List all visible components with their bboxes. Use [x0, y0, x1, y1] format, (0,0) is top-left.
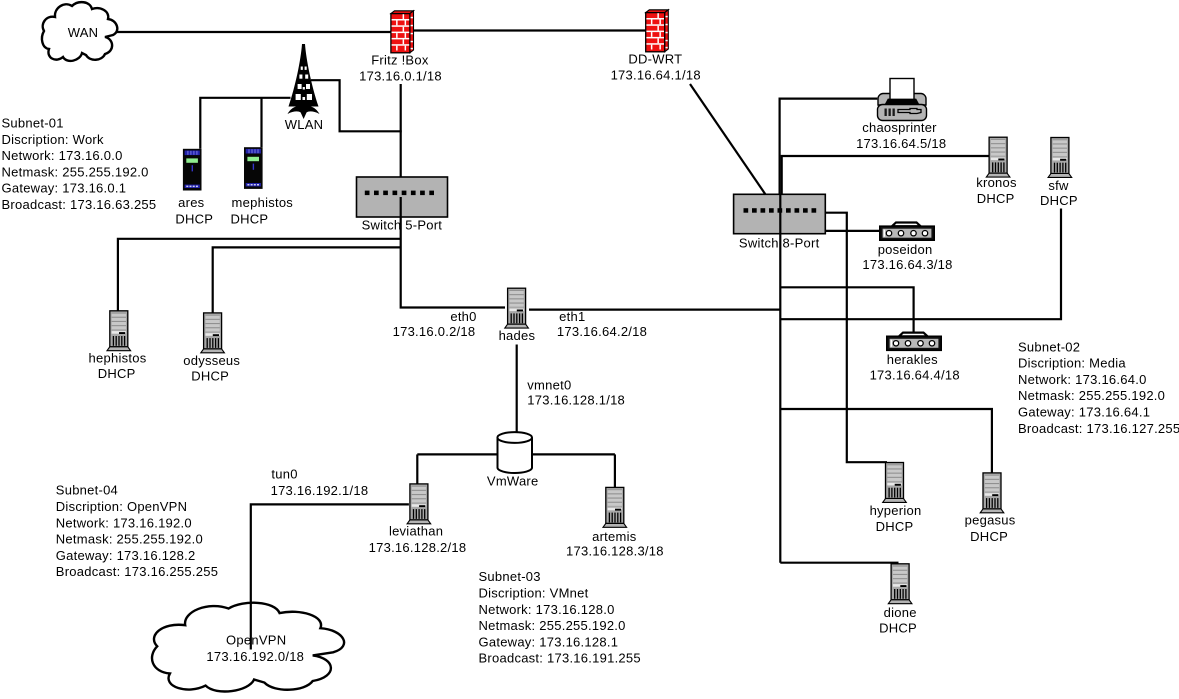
svg-text:DHCP: DHCP — [876, 519, 914, 534]
server hades — [505, 288, 529, 328]
wire kronos to Switch 8-Port — [782, 156, 990, 194]
svg-text:Broadcast: 173.16.63.255: Broadcast: 173.16.63.255 — [2, 197, 157, 212]
text block Subnet-01 — [2, 116, 157, 213]
wire Fritz!Box to DD-WRT — [410, 29, 646, 31]
wire Switch 5-Port bus down to eth0 of hades — [401, 197, 505, 308]
svg-text:OpenVPN: OpenVPN — [226, 632, 286, 647]
svg-text:Netmask: 255.255.192.0: Netmask: 255.255.192.0 — [2, 164, 149, 179]
modem poseidon — [880, 223, 934, 241]
svg-text:Subnet-03: Subnet-03 — [479, 569, 541, 584]
text block Subnet-03 — [479, 569, 641, 666]
svg-text:tun0: tun0 — [271, 467, 297, 482]
svg-text:DHCP: DHCP — [879, 621, 917, 636]
svg-text:Netmask: 255.255.192.0: Netmask: 255.255.192.0 — [479, 618, 626, 633]
svg-text:Broadcast: 173.16.127.255: Broadcast: 173.16.127.255 — [1018, 421, 1179, 436]
wire DD-WRT diagonal to Switch 8-Port — [690, 84, 766, 195]
tower pc mephistos — [244, 147, 263, 189]
svg-text:hyperion: hyperion — [870, 503, 922, 518]
svg-text:DHCP: DHCP — [970, 529, 1008, 544]
firewall DD-WRT — [646, 10, 669, 52]
wire sfw down-left to bus — [780, 209, 1061, 320]
modem herakles — [887, 333, 941, 351]
switch Switch 5-Port box — [357, 177, 448, 217]
svg-text:odysseus: odysseus — [183, 353, 240, 368]
svg-text:DD-WRT: DD-WRT — [628, 51, 682, 66]
svg-text:DHCP: DHCP — [977, 191, 1015, 206]
svg-text:173.16.0.1/18: 173.16.0.1/18 — [359, 69, 442, 84]
svg-text:Network: 173.16.0.0: Network: 173.16.0.0 — [2, 148, 123, 163]
svg-text:DHCP: DHCP — [1040, 193, 1078, 208]
svg-text:leviathan: leviathan — [389, 524, 443, 539]
svg-text:sfw: sfw — [1048, 178, 1069, 193]
server pegasus — [980, 473, 1004, 513]
svg-text:Discription: Media: Discription: Media — [1018, 356, 1126, 371]
svg-text:Discription: OpenVPN: Discription: OpenVPN — [56, 499, 187, 514]
svg-text:hephistos: hephistos — [89, 351, 147, 366]
svg-text:hades: hades — [499, 328, 536, 343]
svg-text:Discription: VMnet: Discription: VMnet — [479, 586, 589, 601]
svg-text:Switch 8-Port: Switch 8-Port — [739, 235, 820, 250]
wire Switch 8-Port right to hyperion — [825, 213, 887, 463]
svg-text:Gateway: 173.16.128.2: Gateway: 173.16.128.2 — [56, 548, 196, 563]
server artemis — [603, 487, 627, 527]
svg-text:Discription: Work: Discription: Work — [2, 132, 105, 147]
wire branch to herakles — [780, 287, 913, 332]
svg-text:DHCP: DHCP — [175, 212, 213, 227]
wire branch to pegasus — [780, 409, 992, 473]
printer chaosprinter — [878, 79, 927, 121]
text block Subnet-02 — [1018, 339, 1179, 436]
wire hades eth1 to Switch 8-Port bus — [529, 309, 780, 311]
svg-text:mephistos: mephistos — [232, 195, 294, 210]
svg-text:artemis: artemis — [592, 529, 637, 544]
svg-text:Gateway: 173.16.64.1: Gateway: 173.16.64.1 — [1018, 405, 1150, 420]
svg-text:173.16.64.4/18: 173.16.64.4/18 — [870, 368, 960, 383]
svg-text:eth1: eth1 — [559, 309, 585, 324]
svg-text:Switch 5-Port: Switch 5-Port — [362, 218, 443, 233]
wire branch to dione — [780, 562, 898, 564]
wire Switch 8-Port main vertical bus — [779, 195, 781, 563]
wire WLAN left bus to ares — [200, 98, 290, 149]
svg-text:173.16.128.1/18: 173.16.128.1/18 — [527, 392, 625, 407]
server leviathan — [407, 484, 431, 524]
wire WAN to Fritz!Box — [116, 31, 391, 33]
wire mephistos drop — [260, 98, 262, 147]
cloud OpenVPN — [152, 603, 344, 692]
svg-text:Fritz !Box: Fritz !Box — [371, 53, 429, 68]
svg-text:DHCP: DHCP — [230, 212, 268, 227]
server odysseus — [201, 313, 225, 353]
svg-text:pegasus: pegasus — [965, 513, 1016, 528]
svg-text:Network: 173.16.64.0: Network: 173.16.64.0 — [1018, 372, 1147, 387]
wire tun0 from leviathan to OpenVPN cloud — [251, 504, 409, 649]
svg-text:DHCP: DHCP — [98, 366, 136, 381]
firewall Fritz !Box — [391, 11, 414, 53]
svg-text:173.16.128.3/18: 173.16.128.3/18 — [566, 544, 664, 559]
svg-text:poseidon: poseidon — [878, 242, 933, 257]
svg-text:herakles: herakles — [887, 352, 938, 367]
cloud WAN — [42, 2, 117, 61]
wire drop to leviathan — [416, 454, 418, 483]
server kronos — [986, 137, 1010, 177]
cylinder VmWare — [497, 432, 532, 473]
wire WLAN zigzag to Fritz!Box riser — [311, 80, 402, 131]
wire Switch 8-Port to poseidon — [825, 230, 879, 232]
wire chaosprinter to Switch 8-Port — [780, 99, 878, 195]
server hephistos — [107, 311, 131, 351]
wire branch to hephistos — [118, 239, 401, 311]
svg-text:VmWare: VmWare — [487, 473, 539, 488]
svg-text:173.16.192.1/18: 173.16.192.1/18 — [271, 483, 369, 498]
server sfw — [1048, 138, 1072, 178]
server hyperion — [883, 463, 907, 503]
wire Fritz!Box down to Switch 5-Port — [400, 84, 402, 177]
svg-text:DHCP: DHCP — [191, 369, 229, 384]
wire drop to artemis — [614, 454, 616, 487]
svg-text:dione: dione — [884, 605, 917, 620]
svg-text:Subnet-02: Subnet-02 — [1018, 339, 1080, 354]
wire branch to odysseus — [213, 247, 401, 312]
wire VmWare horizontal bus — [417, 453, 615, 455]
svg-text:Gateway: 173.16.0.1: Gateway: 173.16.0.1 — [2, 181, 127, 196]
svg-text:Broadcast: 173.16.255.255: Broadcast: 173.16.255.255 — [56, 564, 218, 579]
switch Switch 8-Port box — [734, 194, 826, 233]
svg-text:173.16.0.2/18: 173.16.0.2/18 — [393, 324, 476, 339]
svg-text:Network: 173.16.128.0: Network: 173.16.128.0 — [479, 602, 615, 617]
svg-text:Netmask: 255.255.192.0: Netmask: 255.255.192.0 — [56, 532, 203, 547]
svg-text:kronos: kronos — [976, 175, 1017, 190]
antenna tower WLAN — [288, 44, 320, 119]
svg-text:173.16.192.0/18: 173.16.192.0/18 — [206, 649, 304, 664]
svg-text:ares: ares — [178, 195, 205, 210]
wire hades vmnet0 down to VmWare — [516, 345, 518, 434]
svg-text:chaosprinter: chaosprinter — [862, 120, 937, 135]
svg-text:WLAN: WLAN — [285, 117, 324, 132]
svg-text:Gateway: 173.16.128.1: Gateway: 173.16.128.1 — [479, 634, 619, 649]
server dione — [888, 564, 912, 604]
svg-text:Network: 173.16.192.0: Network: 173.16.192.0 — [56, 515, 192, 530]
svg-text:eth0: eth0 — [450, 309, 476, 324]
tower pc ares — [183, 149, 202, 191]
svg-text:WAN: WAN — [68, 25, 99, 40]
svg-text:Subnet-04: Subnet-04 — [56, 483, 118, 498]
svg-text:vmnet0: vmnet0 — [527, 378, 571, 393]
svg-text:Netmask: 255.255.192.0: Netmask: 255.255.192.0 — [1018, 388, 1165, 403]
svg-text:173.16.128.2/18: 173.16.128.2/18 — [369, 540, 467, 555]
svg-text:Broadcast: 173.16.191.255: Broadcast: 173.16.191.255 — [479, 651, 641, 666]
text block Subnet-04 — [56, 483, 218, 580]
svg-text:173.16.64.2/18: 173.16.64.2/18 — [557, 324, 647, 339]
svg-text:173.16.64.3/18: 173.16.64.3/18 — [862, 257, 952, 272]
svg-text:173.16.64.5/18: 173.16.64.5/18 — [856, 136, 946, 151]
svg-text:173.16.64.1/18: 173.16.64.1/18 — [611, 68, 701, 83]
svg-text:Subnet-01: Subnet-01 — [2, 116, 64, 131]
